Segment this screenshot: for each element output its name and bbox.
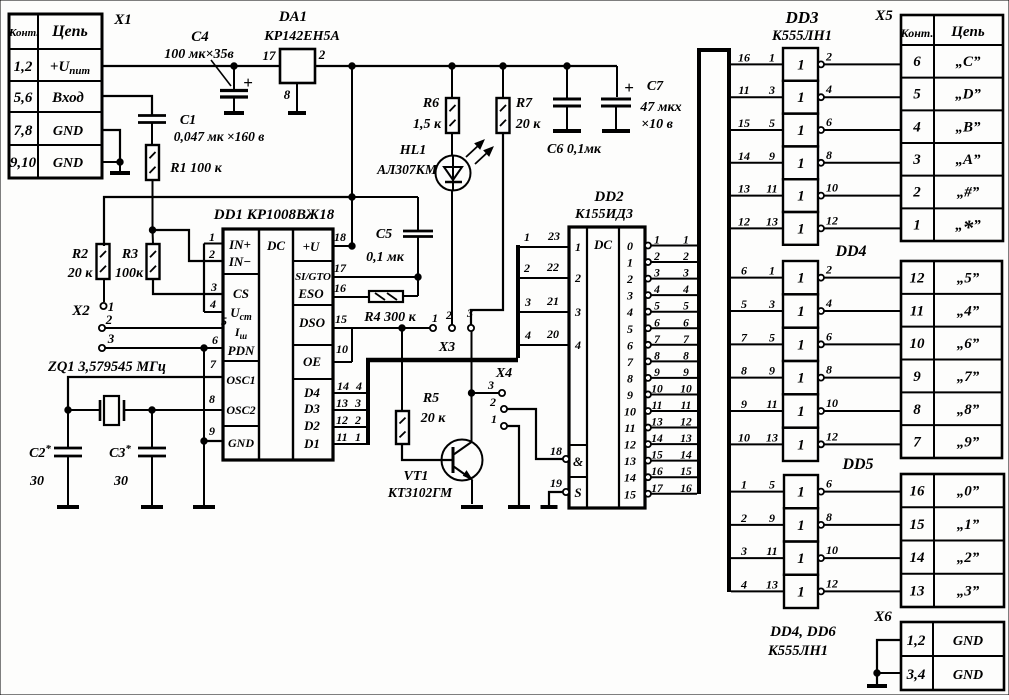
svg-text:100к: 100к [115, 266, 144, 281]
junction R6 on rail [449, 63, 455, 69]
DD1 cell ESO [297, 286, 324, 301]
DD4 inverter 4 box [783, 361, 818, 394]
label R7 [515, 96, 542, 132]
svg-text:„B”: „B” [955, 119, 981, 135]
DD2 &S cell [569, 445, 587, 500]
svg-text:15: 15 [624, 487, 636, 501]
voltage regulator DA1 box [280, 49, 315, 83]
wire X2-3 to DD1 pin6 [105, 347, 223, 349]
svg-text:1: 1 [209, 230, 215, 244]
junction line A downfeed [349, 194, 355, 200]
svg-text:К155ИД3: К155ИД3 [574, 207, 633, 222]
svg-text:1: 1 [654, 235, 660, 247]
DD2 input cell numbers [574, 240, 581, 352]
label DD2 [574, 189, 633, 222]
transistor VT1 [442, 440, 483, 481]
svg-text:IN−: IN− [228, 254, 251, 269]
svg-text:14: 14 [337, 379, 349, 393]
X6 row 3,4 GND [906, 667, 984, 683]
svg-text:10: 10 [738, 430, 750, 444]
svg-text:13: 13 [766, 430, 778, 444]
svg-text:15: 15 [738, 116, 750, 130]
wire Vhod to C1 [102, 96, 152, 115]
svg-text:1: 1 [627, 256, 633, 270]
svg-text:6: 6 [212, 333, 218, 347]
DD3 inverter 2 box [783, 81, 818, 114]
svg-text:X4: X4 [495, 366, 512, 381]
label C3 [109, 443, 131, 489]
DD1 cell CS [233, 286, 249, 301]
X5 row 13 „3” [910, 583, 980, 599]
DD3 inverter 1 input (wire 16, pin 1) [731, 50, 783, 64]
svg-text:18: 18 [550, 444, 562, 458]
svg-text:OE: OE [303, 354, 321, 369]
svg-text:14: 14 [680, 450, 692, 462]
DD1 pin3 label [210, 280, 217, 294]
svg-text:3: 3 [210, 280, 217, 294]
DD1 cell DC [266, 238, 285, 253]
DD3 inverter 6 output pin 12 [818, 213, 901, 231]
svg-text:R1 100 к: R1 100 к [169, 161, 222, 176]
DD2 output 0 (pin 1, bus wire 1) [627, 235, 697, 254]
svg-text:11: 11 [652, 400, 663, 412]
capacitor C6 [553, 66, 581, 129]
svg-text:2: 2 [626, 272, 633, 286]
svg-text:2: 2 [318, 47, 326, 62]
svg-text:КР142ЕН5А: КР142ЕН5А [263, 29, 340, 44]
junction X6 gnd [874, 670, 880, 676]
label R1 [169, 161, 222, 176]
svg-text:11: 11 [336, 430, 347, 444]
svg-text:13: 13 [910, 583, 926, 599]
svg-text:1: 1 [491, 412, 497, 426]
svg-text:КТ3102ГМ: КТ3102ГМ [387, 485, 453, 500]
svg-text:5: 5 [683, 301, 689, 313]
C2 ground [57, 505, 79, 509]
DD3 inverter 5 box [783, 179, 818, 212]
X5 row 8 „8” [913, 402, 980, 418]
svg-text:8: 8 [654, 350, 660, 362]
svg-text:11: 11 [910, 303, 924, 319]
svg-text:7: 7 [913, 435, 921, 451]
pin 17 label DA1 [263, 48, 277, 63]
bus horizontal run [366, 358, 518, 363]
svg-text:„4”: „4” [957, 303, 980, 319]
svg-text:13: 13 [680, 433, 692, 445]
svg-text:1: 1 [797, 57, 805, 73]
svg-text:9: 9 [741, 397, 747, 411]
svg-text:1: 1 [355, 430, 361, 444]
svg-text:1: 1 [913, 217, 921, 233]
svg-text:„D”: „D” [955, 87, 981, 103]
DD1 pin6 label [212, 333, 218, 347]
label C4 [164, 29, 234, 86]
svg-text:2: 2 [825, 49, 832, 63]
label DD4 DD6 K555LN1 [767, 624, 836, 659]
DD4 inverter 4 output pin 8 [818, 363, 901, 381]
svg-text:D1: D1 [303, 436, 320, 451]
svg-text:C5: C5 [376, 227, 392, 242]
svg-text:Конт.: Конт. [900, 26, 934, 40]
svg-text:1: 1 [797, 584, 805, 600]
DD2 output 9 (pin 10, bus wire 10) [627, 383, 697, 402]
svg-text:16: 16 [680, 483, 692, 495]
svg-text:15: 15 [910, 517, 926, 533]
connector X4 pin 3 [487, 378, 505, 396]
svg-text:1: 1 [797, 437, 805, 453]
svg-text:10: 10 [336, 342, 348, 356]
label C2 [29, 443, 51, 489]
svg-text:5: 5 [221, 314, 227, 328]
label C6 [547, 142, 602, 157]
svg-text:10: 10 [826, 396, 838, 410]
svg-text:18: 18 [334, 230, 346, 244]
svg-text:12: 12 [910, 271, 926, 287]
DD2 output 3 (pin 4, bus wire 4) [626, 284, 697, 303]
label R5 [420, 391, 447, 426]
DD4 inverter 6 box [783, 428, 818, 461]
DD2 output 8 (pin 9, bus wire 9) [627, 367, 697, 386]
DD1 pin15 stub [333, 312, 430, 328]
capacitor C5 [403, 197, 433, 296]
svg-text:4: 4 [355, 379, 362, 393]
svg-text:C4: C4 [191, 29, 209, 45]
wire +Upit rail [102, 65, 280, 67]
svg-text:3: 3 [107, 331, 115, 346]
DD2 cell DC [593, 237, 612, 252]
svg-text:„1”: „1” [957, 517, 980, 533]
DD2 output 13 (pin 15, bus wire 14) [624, 450, 697, 469]
svg-text:OSC1: OSC1 [226, 373, 255, 387]
DD5 inverter 4 input (wire 4, pin 13) [731, 577, 784, 591]
DD1 cell OSC1 [226, 373, 255, 387]
svg-text:16: 16 [910, 484, 926, 500]
svg-text:9: 9 [209, 424, 215, 438]
IC DD1 box [223, 229, 333, 460]
DD3 inverter 1 output pin 2 [818, 49, 901, 67]
svg-text:100 мк×35в: 100 мк×35в [164, 47, 234, 62]
junction R7 on rail [500, 63, 506, 69]
svg-text:5: 5 [769, 330, 775, 344]
DD2 output 15 (pin 17, bus wire 16) [624, 483, 697, 502]
DD1 pin9 label [209, 424, 215, 438]
C3 ground [141, 505, 163, 509]
svg-text:X6: X6 [873, 609, 892, 625]
X5 row 5 „D” [913, 87, 981, 103]
X1 ground symbol [110, 162, 130, 173]
DD1 cell D1 [303, 436, 320, 451]
wire crystal left lead [68, 409, 100, 411]
svg-text:2: 2 [825, 263, 832, 277]
svg-text:1: 1 [797, 221, 805, 237]
svg-text:10: 10 [624, 405, 636, 419]
svg-text:47 мкх: 47 мкх [639, 100, 681, 115]
capacitor C1 [138, 116, 166, 146]
DD1 cell Ish [234, 325, 248, 341]
svg-text:R7: R7 [515, 96, 533, 111]
connector X3 pin 2 [445, 308, 455, 331]
crystal ZQ1 [100, 396, 124, 425]
svg-text:11: 11 [766, 397, 777, 411]
DD1 cell D4 [303, 385, 320, 400]
X5 row 4 „B” [912, 119, 981, 135]
X5 row 15 „1” [910, 517, 980, 533]
wire X1 GND rows [102, 130, 120, 163]
X1 row 5,6 Vhod [14, 90, 85, 106]
X5 row 9 „7” [913, 369, 980, 385]
svg-text:12: 12 [680, 417, 692, 429]
svg-text:7: 7 [741, 330, 748, 344]
svg-text:23: 23 [547, 229, 560, 243]
DA1 pin 8 ground [284, 83, 306, 113]
DD5 inverter 4 box [784, 575, 818, 608]
svg-text:2: 2 [653, 251, 660, 263]
svg-text:DD5: DD5 [841, 456, 873, 473]
connector X2 pin 1 [100, 299, 114, 314]
svg-text:2: 2 [740, 511, 747, 525]
DD3 inverter 4 output pin 8 [818, 148, 901, 166]
svg-text:К555ЛН1: К555ЛН1 [771, 28, 832, 44]
DD3 inverter 3 output pin 6 [818, 115, 901, 133]
DD5 inverter 4 output pin 12 [818, 576, 901, 594]
svg-text:5: 5 [769, 478, 775, 492]
svg-text:7: 7 [627, 355, 634, 369]
DD1 pin8 label [209, 392, 215, 406]
svg-text:5: 5 [769, 116, 775, 130]
junction PDN-GND [201, 345, 207, 351]
wire rail DA1 out to C7 corner [315, 65, 617, 67]
svg-text:9: 9 [627, 388, 633, 402]
label X3 [438, 340, 455, 355]
svg-text:„9”: „9” [957, 435, 980, 451]
junction X1 gnd [117, 159, 123, 165]
label DD4 [834, 243, 866, 260]
junction C6 on rail [564, 63, 570, 69]
label X2 [71, 303, 90, 319]
DD1 left cell dividers [223, 274, 259, 426]
svg-text:2: 2 [208, 247, 215, 261]
junction crystal left [65, 407, 71, 413]
svg-text:16: 16 [651, 466, 663, 478]
DD1 pin16 stub [333, 281, 369, 297]
junction R5 tap [399, 325, 405, 331]
X6 ground symbol [867, 684, 887, 688]
GND line ground [193, 505, 215, 509]
DD4 inverter 2 box [783, 294, 818, 327]
DD3 inverter 4 box [783, 146, 818, 179]
bus top bar [697, 48, 731, 52]
svg-text:15: 15 [680, 466, 692, 478]
svg-text:5: 5 [627, 322, 633, 336]
svg-text:1: 1 [797, 271, 805, 287]
wire X2-2 to DD1 pin5 [105, 327, 223, 329]
DD3 inverter 3 input (wire 15, pin 5) [731, 116, 783, 130]
svg-text:1: 1 [797, 371, 805, 387]
svg-text:12: 12 [826, 576, 838, 590]
label R3 [115, 247, 144, 281]
svg-text:3: 3 [768, 83, 775, 97]
X6 row 1,2 GND [907, 633, 984, 649]
DD1 cell SI/GTO [295, 271, 331, 283]
junction input node [149, 227, 155, 233]
svg-text:9: 9 [769, 149, 775, 163]
svg-text:DD4: DD4 [834, 243, 866, 260]
svg-text:1: 1 [769, 50, 775, 64]
wire +5V downfeed to pin18 [349, 66, 355, 249]
wire R4 right [403, 295, 418, 297]
svg-text:8: 8 [826, 148, 832, 162]
X1 header text [8, 23, 88, 40]
svg-text:8: 8 [683, 350, 689, 362]
DD1 cell PDN [228, 343, 255, 358]
DD1 pin7 label [210, 357, 217, 371]
DD1 pin1 label [209, 230, 215, 244]
connector X4 pin 2 [489, 395, 507, 412]
DD5 inverter 3 box [784, 542, 818, 575]
LED HL1 [436, 156, 471, 191]
resistor R4 [369, 291, 403, 302]
DD1 cell Ust [230, 305, 252, 323]
svg-text:11: 11 [766, 544, 777, 558]
svg-text:GND: GND [953, 668, 983, 683]
X5 row 3 „A” [912, 152, 981, 168]
connector X2 pin 2 [99, 312, 113, 331]
svg-text:1: 1 [432, 311, 438, 325]
X5 header [900, 24, 985, 40]
X5 row 1 „<tspan font-size="21" dy="5">*</tspan><tspan dy="-5">”</tspan> [913, 215, 981, 239]
wire R3 to pins 3-4 [153, 279, 223, 294]
svg-text:Конт.: Конт. [8, 27, 39, 39]
svg-text:5: 5 [913, 87, 921, 103]
svg-text:2: 2 [105, 312, 113, 327]
svg-text:PDN: PDN [228, 343, 255, 358]
DD2 output 1 (pin 2, bus wire 2) [627, 251, 697, 270]
svg-text:4: 4 [825, 82, 832, 96]
DD1 pins bracket [204, 244, 223, 313]
svg-text:4: 4 [740, 577, 747, 591]
svg-text:D4: D4 [303, 385, 320, 400]
svg-text:20 к: 20 к [420, 411, 447, 426]
svg-text:11: 11 [624, 421, 635, 435]
svg-text:9: 9 [683, 367, 689, 379]
DD1 pin10 stub [333, 328, 352, 362]
DD2 output 10 (pin 11, bus wire 11) [624, 400, 697, 419]
svg-text:0,047 мк ×160 в: 0,047 мк ×160 в [174, 129, 265, 144]
svg-text:0,1 мк: 0,1 мк [366, 250, 405, 265]
DD2 output 6 (pin 7, bus wire 7) [627, 334, 697, 353]
DD1 cell IN+ [228, 237, 251, 252]
DD1 cell GND [228, 436, 254, 450]
svg-text:16: 16 [738, 50, 750, 64]
svg-text:1: 1 [797, 156, 805, 172]
DD2 output 4 (pin 5, bus wire 5) [626, 301, 697, 320]
IC DD2 box [569, 227, 645, 508]
svg-text:„5”: „5” [957, 271, 980, 287]
svg-text:1: 1 [797, 404, 805, 420]
DD4 inverter 1 output pin 2 [818, 263, 901, 281]
DD1 pin18 stub [333, 230, 352, 246]
DD2 input stubs [518, 247, 569, 345]
capacitor C3 [138, 410, 166, 505]
DD1 pin14 stub [333, 379, 368, 393]
DD5 inverter 1 output pin 6 [818, 477, 901, 495]
DD5 inverter 3 input (wire 3, pin 11) [731, 544, 784, 558]
svg-text:8: 8 [913, 402, 921, 418]
DD3 inverter 5 output pin 10 [818, 181, 901, 199]
svg-text:R4 300 к: R4 300 к [363, 310, 416, 325]
svg-text:17: 17 [334, 261, 347, 275]
svg-text:1: 1 [797, 189, 805, 205]
label R4 [363, 310, 416, 325]
svg-text:DD4, DD6: DD4, DD6 [769, 624, 836, 640]
svg-text:13: 13 [336, 396, 348, 410]
svg-text:SI/GTO: SI/GTO [295, 271, 331, 283]
wire VT1 collector [471, 331, 473, 442]
wire R1 bottom to node [152, 180, 154, 230]
svg-text:IN+: IN+ [228, 237, 251, 252]
junction C4 on rail [231, 63, 237, 69]
svg-text:5: 5 [741, 297, 747, 311]
bus left vertical [697, 48, 701, 494]
DD1 pin4 label [209, 297, 216, 311]
label VT1 [387, 469, 453, 500]
DD3 inverter 4 input (wire 14, pin 9) [731, 149, 783, 163]
svg-text:3: 3 [768, 297, 775, 311]
svg-text:10: 10 [826, 543, 838, 557]
svg-text:8: 8 [741, 364, 747, 378]
svg-text:1: 1 [524, 230, 530, 244]
svg-text:5,6: 5,6 [14, 90, 33, 106]
DD1 cell IN- [228, 254, 251, 269]
DD3 inverter 6 box [783, 212, 818, 245]
svg-text:6: 6 [826, 329, 832, 343]
svg-text:13: 13 [624, 454, 636, 468]
svg-text:4: 4 [912, 119, 921, 135]
wire node to R3 [152, 230, 155, 244]
svg-text:CS: CS [233, 286, 249, 301]
label DD5 [841, 456, 873, 473]
connector X1 table frame [9, 14, 102, 178]
svg-text:OSC2: OSC2 [226, 403, 255, 417]
svg-text:Цепь: Цепь [950, 24, 985, 40]
DD1 cell DSO [298, 315, 326, 330]
wire R2 to X2-1 [103, 279, 105, 302]
DD4 inverter 3 input (wire 7, pin 5) [731, 330, 783, 344]
svg-text:1: 1 [575, 240, 581, 254]
svg-text:C1: C1 [180, 113, 196, 128]
svg-text:„#”: „#” [957, 185, 980, 201]
svg-text:20 к: 20 к [515, 117, 542, 132]
svg-text:6: 6 [627, 338, 633, 352]
DD3 inverter 5 input (wire 13, pin 11) [731, 182, 783, 196]
DD1 pin2 label [208, 247, 215, 261]
svg-text:7,8: 7,8 [14, 123, 33, 139]
svg-text:11: 11 [738, 83, 749, 97]
junction +5V downfeed [349, 63, 355, 69]
svg-text:GND: GND [228, 436, 254, 450]
svg-text:9,10: 9,10 [10, 155, 37, 171]
DD4 inverter 2 output pin 4 [818, 296, 901, 314]
DD4 inverter 5 input (wire 9, pin 11) [731, 397, 783, 411]
svg-text:9: 9 [769, 364, 775, 378]
DD3 inverter 3 box [783, 114, 818, 147]
svg-text:2: 2 [574, 271, 581, 285]
DD4 inverter 5 box [783, 394, 818, 427]
resistor R3 [147, 244, 160, 279]
DD2 pin19 input circle [550, 476, 569, 495]
svg-text:14: 14 [910, 550, 926, 566]
svg-text:8: 8 [826, 363, 832, 377]
